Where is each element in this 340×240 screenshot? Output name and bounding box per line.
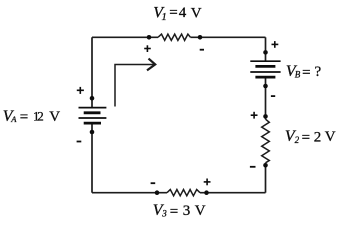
wire right vertical middle [265, 77, 267, 119]
node dot R2 bottom [263, 163, 268, 168]
current arrow [115, 59, 155, 107]
svg-text:V: V [195, 203, 206, 219]
minus sign VB [271, 95, 275, 97]
svg-text:V: V [191, 6, 202, 22]
svg-text:=: = [170, 204, 178, 220]
svg-text:V: V [325, 129, 336, 145]
node dot R3 left [155, 190, 160, 195]
wire left vertical lower [91, 123, 93, 193]
wire right vertical bottom [265, 163, 267, 193]
plus sign VB [272, 41, 279, 48]
wire top-left segment [92, 36, 158, 38]
node dot R1 left [147, 35, 152, 40]
label VB = ? [286, 63, 322, 81]
svg-text:4: 4 [179, 5, 187, 21]
svg-text:=: = [302, 130, 310, 146]
battery VB plates [250, 61, 280, 77]
node dot VB bottom [263, 84, 268, 89]
node dot VA top [90, 96, 95, 101]
plus sign VA [77, 87, 84, 94]
node dot R2 top [263, 114, 268, 119]
label V1 = 4 V [153, 5, 202, 24]
minus sign VA [77, 141, 82, 143]
minus sign R3 [151, 182, 156, 184]
svg-text:2: 2 [37, 108, 44, 123]
svg-text:V: V [49, 109, 60, 125]
wire right vertical top [265, 37, 267, 61]
plus sign R2 [251, 112, 258, 119]
svg-text:1: 1 [162, 12, 167, 23]
resistor R3 zigzag [167, 190, 200, 196]
label VA = 12 V [3, 108, 61, 126]
svg-text:2: 2 [314, 129, 322, 145]
node dot VA bottom [90, 130, 95, 135]
svg-text:2: 2 [295, 135, 300, 145]
node dot R3 right [204, 190, 209, 195]
svg-text:?: ? [315, 64, 322, 80]
node dot VB top [263, 50, 268, 55]
label V3 = 3 V [153, 202, 206, 220]
plus sign R3 [204, 179, 211, 186]
svg-text:B: B [295, 70, 301, 80]
wire top-right segment [191, 36, 266, 38]
wire bottom-right segment [200, 192, 266, 194]
label V2 = 2 V [285, 128, 336, 146]
svg-text:=: = [302, 65, 310, 81]
plus sign R1 [144, 45, 151, 52]
resistor R1 zigzag [158, 34, 191, 40]
svg-text:3: 3 [183, 203, 191, 219]
battery VA plates [79, 108, 107, 124]
svg-text:=: = [20, 109, 28, 125]
minus sign R1 [200, 49, 204, 51]
node dot R1 right [198, 35, 203, 40]
svg-text:3: 3 [161, 208, 167, 218]
resistor R2 zigzag [262, 119, 270, 163]
wire left vertical upper [91, 37, 93, 107]
wire bottom-left segment [92, 192, 167, 194]
svg-text:=: = [169, 5, 177, 21]
minus sign R2 [250, 166, 256, 168]
svg-text:A: A [10, 114, 17, 124]
